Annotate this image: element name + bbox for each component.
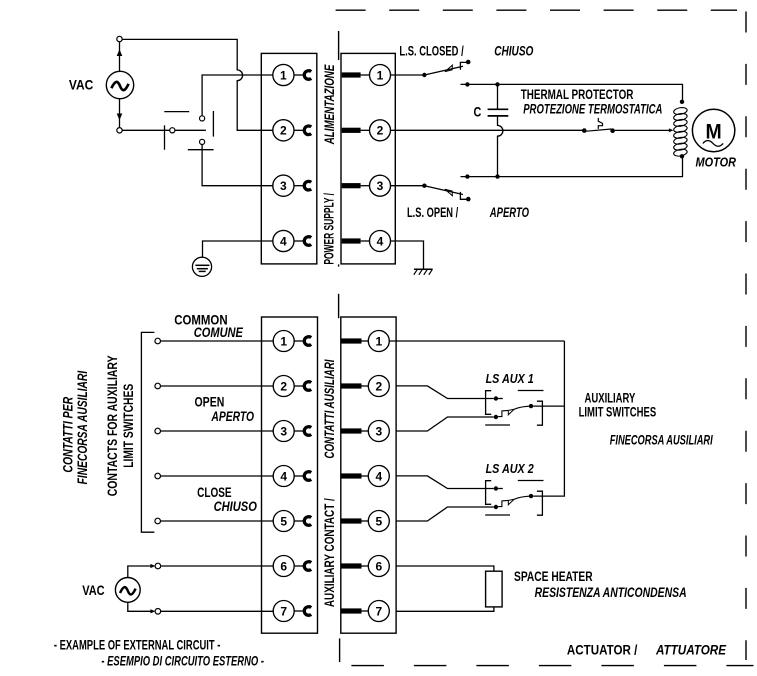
VAC label (heater supply) <box>82 583 105 598</box>
TB1 terminal 4 crimp hook <box>294 237 311 246</box>
caption ESEMPIO DI CIRCUITO ESTERNO <box>101 654 264 669</box>
wire external contact 2 to TB3-2 <box>161 385 274 387</box>
terminal node (V1 top) <box>117 36 122 41</box>
LS AUX 2 housing top bar <box>518 480 544 482</box>
wire V1 bottom to switch pivot <box>122 129 169 131</box>
LS AUX 1 upper contact stub <box>498 398 503 400</box>
svg-text:LIMIT SWITCHES: LIMIT SWITCHES <box>121 384 136 468</box>
chassis ground symbol <box>414 269 433 275</box>
wire external contact 4 to TB3-4 <box>161 475 274 477</box>
label CLOSE <box>197 485 232 500</box>
LS AUX 1 housing bottom bar <box>485 424 510 426</box>
svg-text:M: M <box>706 119 722 143</box>
label ATTUATORE <box>655 643 727 658</box>
motor M1 circle <box>692 109 734 151</box>
bottom rail wire <box>461 156 683 176</box>
TB3 terminal 1 circle <box>273 331 294 352</box>
label POWER SUPPLY / (rotated) <box>322 193 337 265</box>
svg-text:COMUNE: COMUNE <box>194 325 244 340</box>
TB2 terminal 4 lug <box>342 238 370 243</box>
svg-text:MOTOR: MOTOR <box>696 154 737 169</box>
svg-text:6: 6 <box>280 559 287 573</box>
TB4 terminal 5 lug <box>342 518 369 523</box>
label FINECORSA AUSILIARI (rotated italic) <box>75 371 90 485</box>
TB3 terminal 3 crimp hook <box>294 427 311 436</box>
TB3 terminal 5 crimp hook <box>294 517 311 526</box>
svg-text:CONTACTS FOR AUXILIARY: CONTACTS FOR AUXILIARY <box>105 355 120 496</box>
external contact node 6 <box>155 563 161 569</box>
label RESISTENZA ANTICONDENSA <box>535 585 687 600</box>
label LIMIT SWITCHES (aux) <box>579 405 657 420</box>
svg-text:5: 5 <box>280 514 287 528</box>
svg-text:CHIUSO: CHIUSO <box>494 43 534 58</box>
label CONTACTS FOR AUXILIARY (rotated) <box>105 355 120 496</box>
actuator boundary dashed border (bottom) <box>351 665 753 667</box>
wire TB2-1 to L.S. CLOSED <box>391 73 427 77</box>
switch S1 upper contact <box>200 116 205 121</box>
switch S1 pivot <box>170 128 175 133</box>
actuator boundary dashed border (top) <box>336 9 737 11</box>
svg-text:C: C <box>474 104 482 119</box>
label ACTUATOR / <box>567 643 638 658</box>
V1 lower lead with arrow <box>117 99 123 128</box>
TB2 terminal 1 lug <box>342 72 370 77</box>
label C (capacitor) <box>474 104 482 119</box>
TB3 terminal 3 circle <box>273 421 294 442</box>
wire heater to TB4-7 <box>396 607 494 611</box>
svg-text:- EXAMPLE OF EXTERNAL CIRCUIT: - EXAMPLE OF EXTERNAL CIRCUIT - <box>54 638 221 653</box>
switch S1 lower contact <box>200 139 205 144</box>
external contact node 3 <box>155 428 161 434</box>
TB4 terminal 4 lug <box>342 473 369 478</box>
svg-text:FINECORSA AUSILIARI: FINECORSA AUSILIARI <box>610 433 713 448</box>
wire TB4-5 to LS AUX 2 common <box>396 505 498 521</box>
TB4 terminal 6 lug <box>342 563 369 568</box>
svg-text:1: 1 <box>375 334 382 348</box>
wire S1 lower contact to TB1-3 <box>202 145 273 186</box>
LS AUX 1 housing right bracket <box>537 401 543 425</box>
LS AUX 2 blade <box>498 494 533 507</box>
aux rail wire <box>533 341 564 496</box>
switch S1 right crossbar <box>212 111 214 137</box>
svg-text:VAC: VAC <box>82 583 105 598</box>
space heater resistor R1 <box>486 571 503 607</box>
TB3 terminal 5 circle <box>273 511 294 532</box>
svg-text:5: 5 <box>375 514 382 528</box>
svg-text:CONTATTI AUSILIARI: CONTATTI AUSILIARI <box>322 359 337 458</box>
svg-text:AUXILIARY CONTACT /: AUXILIARY CONTACT / <box>322 498 337 607</box>
TB4 terminal 7 circle <box>368 601 389 622</box>
svg-text:3: 3 <box>377 179 384 193</box>
switch S1 lower bar <box>188 149 214 151</box>
TB2 terminal 2 circle <box>370 120 391 141</box>
TB4 terminal 2 circle <box>368 376 389 397</box>
wire TB4-3 to LS AUX 1 common <box>396 415 498 431</box>
svg-text:ALIMENTAZIONE: ALIMENTAZIONE <box>322 64 337 145</box>
TB1 terminal 1 crimp hook <box>294 71 311 80</box>
TB2 terminal 3 circle <box>370 175 391 196</box>
wire TB4-1 to aux rail <box>389 340 564 342</box>
TB3 terminal 4 crimp hook <box>294 472 311 481</box>
svg-text:OPEN: OPEN <box>195 395 225 410</box>
wire external contact 3 to TB3-3 <box>161 430 274 432</box>
protective earth symbol <box>192 257 211 276</box>
label MOTOR <box>696 154 737 169</box>
TB4 terminal 6 circle <box>368 556 389 577</box>
wire V1 top to TB1-2 (with hop over TB1-1 wire) <box>122 39 273 130</box>
external contact node 1 <box>155 338 161 344</box>
wire external contact 5 to TB3-5 <box>161 520 274 522</box>
label LIMIT SWITCHES (rotated) <box>121 384 136 468</box>
wire external contact 7 to TB3-7 <box>161 610 274 612</box>
svg-text:VAC: VAC <box>69 78 94 93</box>
AC source V2 circle <box>115 578 140 603</box>
label CHIUSO (aux) <box>214 499 258 514</box>
TB4 terminal 3 circle <box>368 421 389 442</box>
LS AUX 2 housing right bracket <box>537 491 543 515</box>
TB3 terminal 4 circle <box>273 466 294 487</box>
node motor winding bottom <box>680 154 684 158</box>
label LS AUX 1 <box>486 371 534 386</box>
AC source V1 circle <box>106 71 133 98</box>
external contact node 2 <box>155 383 161 389</box>
TB1 terminal 3 circle <box>273 175 294 196</box>
TB3 terminal 6 crimp hook <box>294 562 311 571</box>
external contact node 7 <box>155 609 161 615</box>
external contact node 4 <box>155 473 161 479</box>
svg-text:PROTEZIONE TERMOSTATICA: PROTEZIONE TERMOSTATICA <box>523 101 662 116</box>
label PROTEZIONE TERMOSTATICA <box>523 101 662 116</box>
motor winding L1 (coil) <box>673 107 688 158</box>
svg-text:POWER SUPPLY /: POWER SUPPLY / <box>322 193 337 265</box>
node top rail left <box>465 82 469 86</box>
svg-text:ATTUATORE: ATTUATORE <box>655 643 727 658</box>
junction capacitor bottom <box>495 174 499 178</box>
svg-text:ACTUATOR /: ACTUATOR / <box>567 643 638 658</box>
TB1 terminal 2 circle <box>273 120 294 141</box>
limit switch L.S. OPEN blade <box>424 186 470 202</box>
svg-text:SPACE HEATER: SPACE HEATER <box>514 569 593 584</box>
terminal node (V1 bottom) <box>117 128 122 133</box>
TB3 terminal 7 crimp hook <box>294 607 311 616</box>
wire TB2-2 to thermal protector <box>391 128 587 133</box>
LS AUX 1 blade <box>498 404 533 417</box>
TB4 terminal 7 lug <box>342 608 369 613</box>
TB3 terminal 1 crimp hook <box>294 337 311 346</box>
label L.S. CLOSED / <box>399 43 463 58</box>
TB2 terminal 4 circle <box>370 231 391 252</box>
svg-text:LIMIT SWITCHES: LIMIT SWITCHES <box>579 405 657 420</box>
svg-text:CLOSE: CLOSE <box>197 485 232 500</box>
svg-text:4: 4 <box>280 234 287 248</box>
svg-text:AUXILIARY: AUXILIARY <box>585 390 636 405</box>
wire V2 to contact 6 (arrow) <box>128 564 156 578</box>
svg-text:CONTATTI PER: CONTATTI PER <box>60 397 75 473</box>
label THERMAL PROTECTOR <box>521 87 634 102</box>
label CONTATTI AUSILIARI (rotated italic) <box>322 359 337 458</box>
svg-text:3: 3 <box>280 424 287 438</box>
terminal block TB4 outline <box>341 317 396 633</box>
label FINECORSA AUSILIARI <box>610 433 713 448</box>
terminal block TB3 outline <box>262 317 318 633</box>
motor sine mark <box>703 141 723 147</box>
svg-text:- ESEMPIO DI CIRCUITO ESTERNO: - ESEMPIO DI CIRCUITO ESTERNO - <box>101 654 264 669</box>
label CHIUSO <box>494 43 534 58</box>
TB4 terminal 2 lug <box>342 383 369 388</box>
TB4 terminal 5 circle <box>368 511 389 532</box>
switch S1 upper-left bar <box>164 111 189 113</box>
capacitor C leads and plates <box>488 84 509 176</box>
label COMUNE <box>194 325 244 340</box>
wire TB4-4 to LS AUX 2 upper contact <box>396 476 498 491</box>
wire thermal protector to motor tap (arrow) <box>615 128 674 132</box>
svg-text:2: 2 <box>377 124 384 138</box>
TB3 terminal 7 circle <box>273 601 294 622</box>
svg-text:APERTO: APERTO <box>211 409 255 424</box>
svg-text:L.S. OPEN /: L.S. OPEN / <box>407 205 458 220</box>
terminal block TB2 outline <box>341 53 395 264</box>
TB4 terminal 3 lug <box>342 428 369 433</box>
label APERTO <box>489 205 529 220</box>
label LS AUX 2 <box>486 461 535 476</box>
TB2 terminal 3 lug <box>342 183 370 188</box>
label SPACE HEATER <box>514 569 593 584</box>
LS AUX 1 housing left bracket <box>486 391 492 415</box>
TB1 terminal 1 circle <box>273 64 294 85</box>
svg-text:2: 2 <box>375 379 382 393</box>
wire TB2-4 to chassis ground <box>391 241 424 269</box>
TB2 terminal 1 circle <box>370 65 391 86</box>
caption EXAMPLE OF EXTERNAL CIRCUIT <box>54 638 221 653</box>
svg-text:L.S. CLOSED /: L.S. CLOSED / <box>399 43 463 58</box>
TB2 terminal 2 lug <box>342 128 370 133</box>
LS AUX 1 housing top bar <box>518 390 544 392</box>
junction capacitor top <box>495 82 499 86</box>
limit switch L.S. CLOSED blade <box>424 60 470 75</box>
wire TB1-4 to earth <box>203 241 273 265</box>
svg-text:LS AUX 2: LS AUX 2 <box>486 461 535 476</box>
label APERTO (aux) <box>211 409 255 424</box>
LS AUX 2 upper contact stub <box>498 488 503 490</box>
LS AUX 2 housing left bracket <box>486 481 492 505</box>
external contact node 5 <box>155 518 161 524</box>
wire aux rail to LS AUX 1 output <box>533 405 564 407</box>
TB4 terminal 4 circle <box>368 466 389 487</box>
wire TB2-3 to L.S. OPEN <box>391 184 427 188</box>
label COMMON <box>174 313 227 328</box>
wire external contact 6 to TB3-6 <box>161 565 274 567</box>
thermal protector contact <box>587 118 615 133</box>
svg-text:7: 7 <box>280 604 287 618</box>
svg-text:6: 6 <box>375 559 382 573</box>
TB4 terminal 1 circle <box>368 331 389 352</box>
svg-text:CHIUSO: CHIUSO <box>214 499 258 514</box>
svg-text:APERTO: APERTO <box>489 205 529 220</box>
grouping bracket (aux contacts) <box>141 332 154 532</box>
label CONTATTI PER (rotated italic) <box>60 397 75 473</box>
TB4 terminal 1 lug <box>342 338 369 343</box>
label ALIMENTAZIONE (rotated italic) <box>322 64 337 145</box>
svg-text:1: 1 <box>377 68 384 82</box>
TB1 terminal 4 circle <box>273 230 294 251</box>
label AUXILIARY CONTACT / (rotated) <box>322 498 337 607</box>
svg-text:RESISTENZA ANTICONDENSA: RESISTENZA ANTICONDENSA <box>535 585 687 600</box>
LS AUX 2 housing bottom bar <box>485 514 510 516</box>
label L.S. OPEN / <box>407 205 458 220</box>
node bottom rail left <box>465 174 469 178</box>
svg-text:FINECORSA AUSILIARI: FINECORSA AUSILIARI <box>75 371 90 485</box>
TB1 terminal 3 crimp hook <box>294 181 311 190</box>
svg-text:1: 1 <box>280 334 287 348</box>
TB3 terminal 6 circle <box>273 556 294 577</box>
wire external contact 1 to TB3-1 <box>161 340 274 342</box>
svg-text:3: 3 <box>375 424 382 438</box>
wire TB4-2 to LS AUX 1 upper contact <box>396 386 498 401</box>
label OPEN <box>195 395 225 410</box>
svg-text:4: 4 <box>377 234 384 248</box>
label AUXILIARY <box>585 390 636 405</box>
V1 upper lead with arrow <box>117 42 123 71</box>
wire V2 to contact 7 (arrow) <box>128 602 156 613</box>
svg-text:LS AUX 1: LS AUX 1 <box>486 371 534 386</box>
switch S1 left crossbar <box>164 125 166 149</box>
svg-text:THERMAL PROTECTOR: THERMAL PROTECTOR <box>521 87 634 102</box>
VAC label (top supply) <box>69 78 94 93</box>
switch S1 blade <box>175 129 206 131</box>
wire S1 upper contact to TB1-1 <box>202 75 273 116</box>
terminal block TB1 outline <box>261 53 317 264</box>
svg-text:4: 4 <box>280 469 287 483</box>
TB3 terminal 2 circle <box>273 376 294 397</box>
motor M letter <box>706 119 722 143</box>
svg-text:2: 2 <box>280 379 287 393</box>
svg-text:2: 2 <box>280 124 287 138</box>
node motor winding top <box>680 100 684 104</box>
top rail wire <box>461 84 683 101</box>
wire TB4-6 to heater <box>396 566 494 571</box>
svg-text:3: 3 <box>280 179 287 193</box>
actuator boundary dashed border (right) <box>745 12 747 661</box>
svg-text:7: 7 <box>375 604 382 618</box>
svg-text:1: 1 <box>280 68 287 82</box>
TB1 terminal 2 crimp hook <box>294 126 311 135</box>
TB3 terminal 2 crimp hook <box>294 382 311 391</box>
svg-text:4: 4 <box>375 469 382 483</box>
actuator boundary dashed border (left segments) <box>339 31 340 662</box>
